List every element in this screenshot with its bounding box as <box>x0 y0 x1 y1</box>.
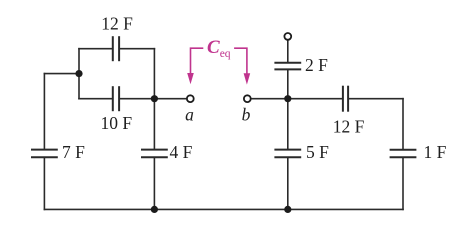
wire: parallel block right edge <box>153 49 155 99</box>
wire: left vertical branch upper <box>43 74 45 149</box>
svg-text:a: a <box>185 105 194 125</box>
svg-text:5 F: 5 F <box>306 142 329 162</box>
wire: top branch right segment <box>120 48 155 50</box>
wire: stub to terminal a <box>154 98 186 100</box>
node: junction dot at node a branch <box>151 95 158 102</box>
terminal a (open circle) <box>187 95 194 102</box>
terminal: 2 F branch top open circle <box>284 33 291 40</box>
wire: middle vertical branch upper <box>153 99 155 149</box>
wire: bottom branch left segment <box>79 98 112 100</box>
svg-text:12 F: 12 F <box>101 14 133 34</box>
capacitor 1 F (plates) <box>391 150 416 158</box>
svg-text:2 F: 2 F <box>305 55 328 75</box>
svg-text:1 F: 1 F <box>424 142 447 162</box>
arrowhead: pointer to b <box>244 73 251 84</box>
capacitor 7 F (plates) <box>32 150 57 158</box>
wire: 5 F branch upper <box>287 99 289 149</box>
capacitor 2 F (plates) <box>275 63 300 70</box>
svg-text:12 F: 12 F <box>333 117 365 137</box>
terminal b (open circle) <box>244 95 251 102</box>
arrowhead: pointer to a <box>187 73 194 84</box>
capacitor 5 F (plates) <box>275 150 300 158</box>
capacitor 4 F (plates) <box>142 150 167 158</box>
wire: 2 F branch upper stub <box>287 40 289 61</box>
wire: from terminal b to junction <box>251 98 288 100</box>
label C_eq (equivalent capacitance, magenta) <box>207 37 231 60</box>
wire: 2 F branch lower <box>287 70 289 98</box>
wire: top branch left segment <box>79 48 112 50</box>
wire: middle vertical branch lower <box>153 158 155 209</box>
svg-text:b: b <box>242 105 251 125</box>
node: junction dot at parallel block left <box>75 70 82 77</box>
capacitor 10 F (bottom branch plates) <box>113 87 119 110</box>
wire: right edge upper <box>402 99 404 149</box>
wire: top-left horizontal from left branch to parallel block <box>44 73 79 75</box>
wire: rail from 12 F to right edge <box>349 98 403 100</box>
svg-text:4 F: 4 F <box>170 142 193 162</box>
arrow: C_eq pointer to node a <box>191 48 204 74</box>
wire: 5 F branch lower <box>287 158 289 209</box>
wire: right edge lower <box>402 158 404 209</box>
wire: bottom branch right segment <box>120 98 155 100</box>
arrow: C_eq pointer to node b <box>234 48 247 74</box>
capacitor 12 F (top branch plates) <box>113 37 119 60</box>
node: junction dot bottom middle <box>151 206 158 213</box>
wire: parallel block left edge <box>78 49 80 99</box>
svg-text:7 F: 7 F <box>62 142 85 162</box>
wire: bottom rail <box>44 208 403 210</box>
wire: rail from b junction to 12 F <box>288 98 343 100</box>
svg-text:Ceq: Ceq <box>207 37 231 60</box>
node: junction dot at b branch <box>284 95 291 102</box>
node: junction dot bottom right branch <box>284 206 291 213</box>
wire: left vertical branch lower <box>43 158 45 209</box>
svg-text:10 F: 10 F <box>100 113 132 133</box>
capacitor 12 F right (plates) <box>343 87 348 111</box>
